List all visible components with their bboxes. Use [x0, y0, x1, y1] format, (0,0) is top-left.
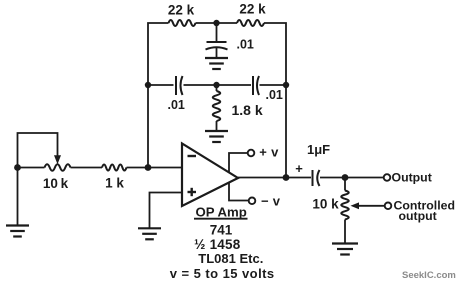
resistor 1k [102, 165, 126, 171]
label 1.8 k [232, 102, 263, 118]
wire +v supply [229, 153, 247, 173]
svg-text:v = 5 to 15 volts: v = 5 to 15 volts [170, 266, 275, 281]
svg-text:22 k: 22 k [239, 2, 266, 17]
svg-text:1μF: 1μF [307, 142, 330, 157]
wiper arrowhead (points left into pot) [351, 202, 360, 209]
svg-text:OP Amp: OP Amp [196, 204, 247, 219]
ground (below top .01 capacitor) [205, 58, 228, 69]
svg-text:Output: Output [392, 170, 432, 184]
capacitor .01 (top, to ground) [206, 42, 228, 58]
label 1/2 1458 [194, 237, 241, 252]
wire top rail middle segment [196, 22, 238, 24]
wire 1k to inverting input node [127, 167, 149, 169]
ground (below 1.8k) [205, 131, 228, 142]
wire middle rail right segment [260, 84, 287, 86]
label -v [261, 194, 281, 209]
svg-text:+: + [295, 161, 303, 176]
wire left vertical feedback (middle rail to input node) [147, 85, 149, 168]
wire top rail right segment [264, 23, 286, 85]
label 22 k (right) [239, 2, 266, 17]
node inverting input [145, 164, 152, 171]
node pot left [14, 164, 21, 171]
wire pot node to 10k [18, 167, 45, 169]
label v = 5 to 15 volts [170, 266, 275, 281]
resistor 1.8k (to ground) [213, 91, 221, 130]
resistor 22k right [237, 20, 264, 26]
label OP Amp with underline [194, 204, 248, 219]
potentiometer 10k (output divider) [341, 191, 349, 243]
label 10 k (output pot) [312, 197, 339, 212]
resistor 22k left [169, 20, 196, 26]
wire top rail left segment [148, 23, 169, 85]
svg-text:.01: .01 [266, 88, 283, 102]
node B (output divider junction) [342, 174, 349, 181]
label 22 k (left) [168, 3, 195, 18]
svg-text:22 k: 22 k [168, 3, 195, 18]
label Controlled output (2 lines) [394, 199, 455, 223]
svg-text:.01: .01 [168, 98, 185, 112]
svg-text:.01: .01 [237, 38, 254, 52]
svg-text:TL081 Etc.: TL081 Etc. [198, 251, 263, 266]
label TL081 Etc. [198, 251, 263, 266]
svg-text:10 k: 10 k [312, 197, 339, 212]
svg-text:10 k: 10 k [43, 176, 69, 191]
label .01 (left middle capacitor) [168, 98, 185, 112]
wire node A to capacitor 1uF [286, 177, 311, 179]
wire 10k to 1k [71, 167, 103, 169]
ground (below pot left node) [17, 168, 19, 226]
op-amp U1 triangle [182, 144, 238, 207]
label 741 [210, 223, 233, 238]
wire right vertical feedback (middle rail to output node) [285, 85, 287, 178]
wire op-amp output to node A [238, 177, 286, 179]
svg-text:+ v: + v [259, 145, 279, 160]
node middle rail center [213, 82, 219, 88]
wire middle rail left segment [148, 84, 174, 86]
svg-text:− v: − v [261, 194, 281, 209]
label .01 (top capacitor) [237, 38, 254, 52]
capacitor .01 (middle rail, left) [176, 76, 183, 95]
wire node B to Output terminal [345, 177, 384, 179]
label 1uF [307, 142, 330, 157]
label 1 k [105, 175, 124, 190]
svg-text:1 k: 1 k [105, 175, 124, 190]
wire -v supply [229, 183, 249, 201]
ground (output pot) [332, 244, 358, 255]
svg-text:SeekIC.com: SeekIC.com [402, 270, 456, 281]
svg-text:1.8 k: 1.8 k [232, 102, 263, 118]
node middle rail left [145, 82, 151, 88]
op-amp plus symbol [188, 188, 197, 196]
wire from top junction to capacitor .01 (top) [216, 23, 218, 42]
terminal Controlled output circle [385, 203, 392, 210]
label + (1uF polarity) [295, 161, 303, 176]
label .01 (right middle capacitor) [266, 88, 283, 102]
wire op-amp non-inverting input to ground [150, 193, 183, 228]
potentiometer 10k wiper loop wire [18, 133, 58, 168]
op-amp minus symbol [188, 155, 197, 157]
wire node B to potentiometer 10k (output) [344, 178, 346, 191]
ground (non-inverting input) [138, 228, 161, 239]
label +v [259, 145, 279, 160]
node middle rail right [283, 82, 289, 88]
terminal -v circle [249, 198, 256, 205]
wire input node to op-amp inverting input [148, 167, 183, 169]
potentiometer 10k element [45, 164, 71, 171]
terminal Output circle [384, 174, 391, 181]
label 10k [43, 176, 69, 191]
wire middle junction to resistor 1.8k [216, 85, 218, 91]
ground bars left [6, 226, 29, 237]
capacitor .01 (middle rail, right) [253, 76, 259, 95]
node A (output/feedback junction) [283, 174, 290, 181]
wire wiper to Controlled output terminal [357, 205, 385, 207]
terminal +v circle [248, 150, 255, 157]
svg-text:741: 741 [210, 223, 233, 238]
svg-text:output: output [399, 209, 437, 223]
capacitor 1uF [313, 170, 320, 186]
wire capacitor to node B [320, 177, 345, 179]
wire middle rail center segment [184, 84, 252, 86]
watermark SeekIC.com [402, 270, 456, 281]
node top junction [213, 20, 219, 26]
label Output [392, 170, 432, 184]
potentiometer wiper arrowhead [54, 155, 61, 164]
svg-text:½ 1458: ½ 1458 [194, 237, 241, 252]
